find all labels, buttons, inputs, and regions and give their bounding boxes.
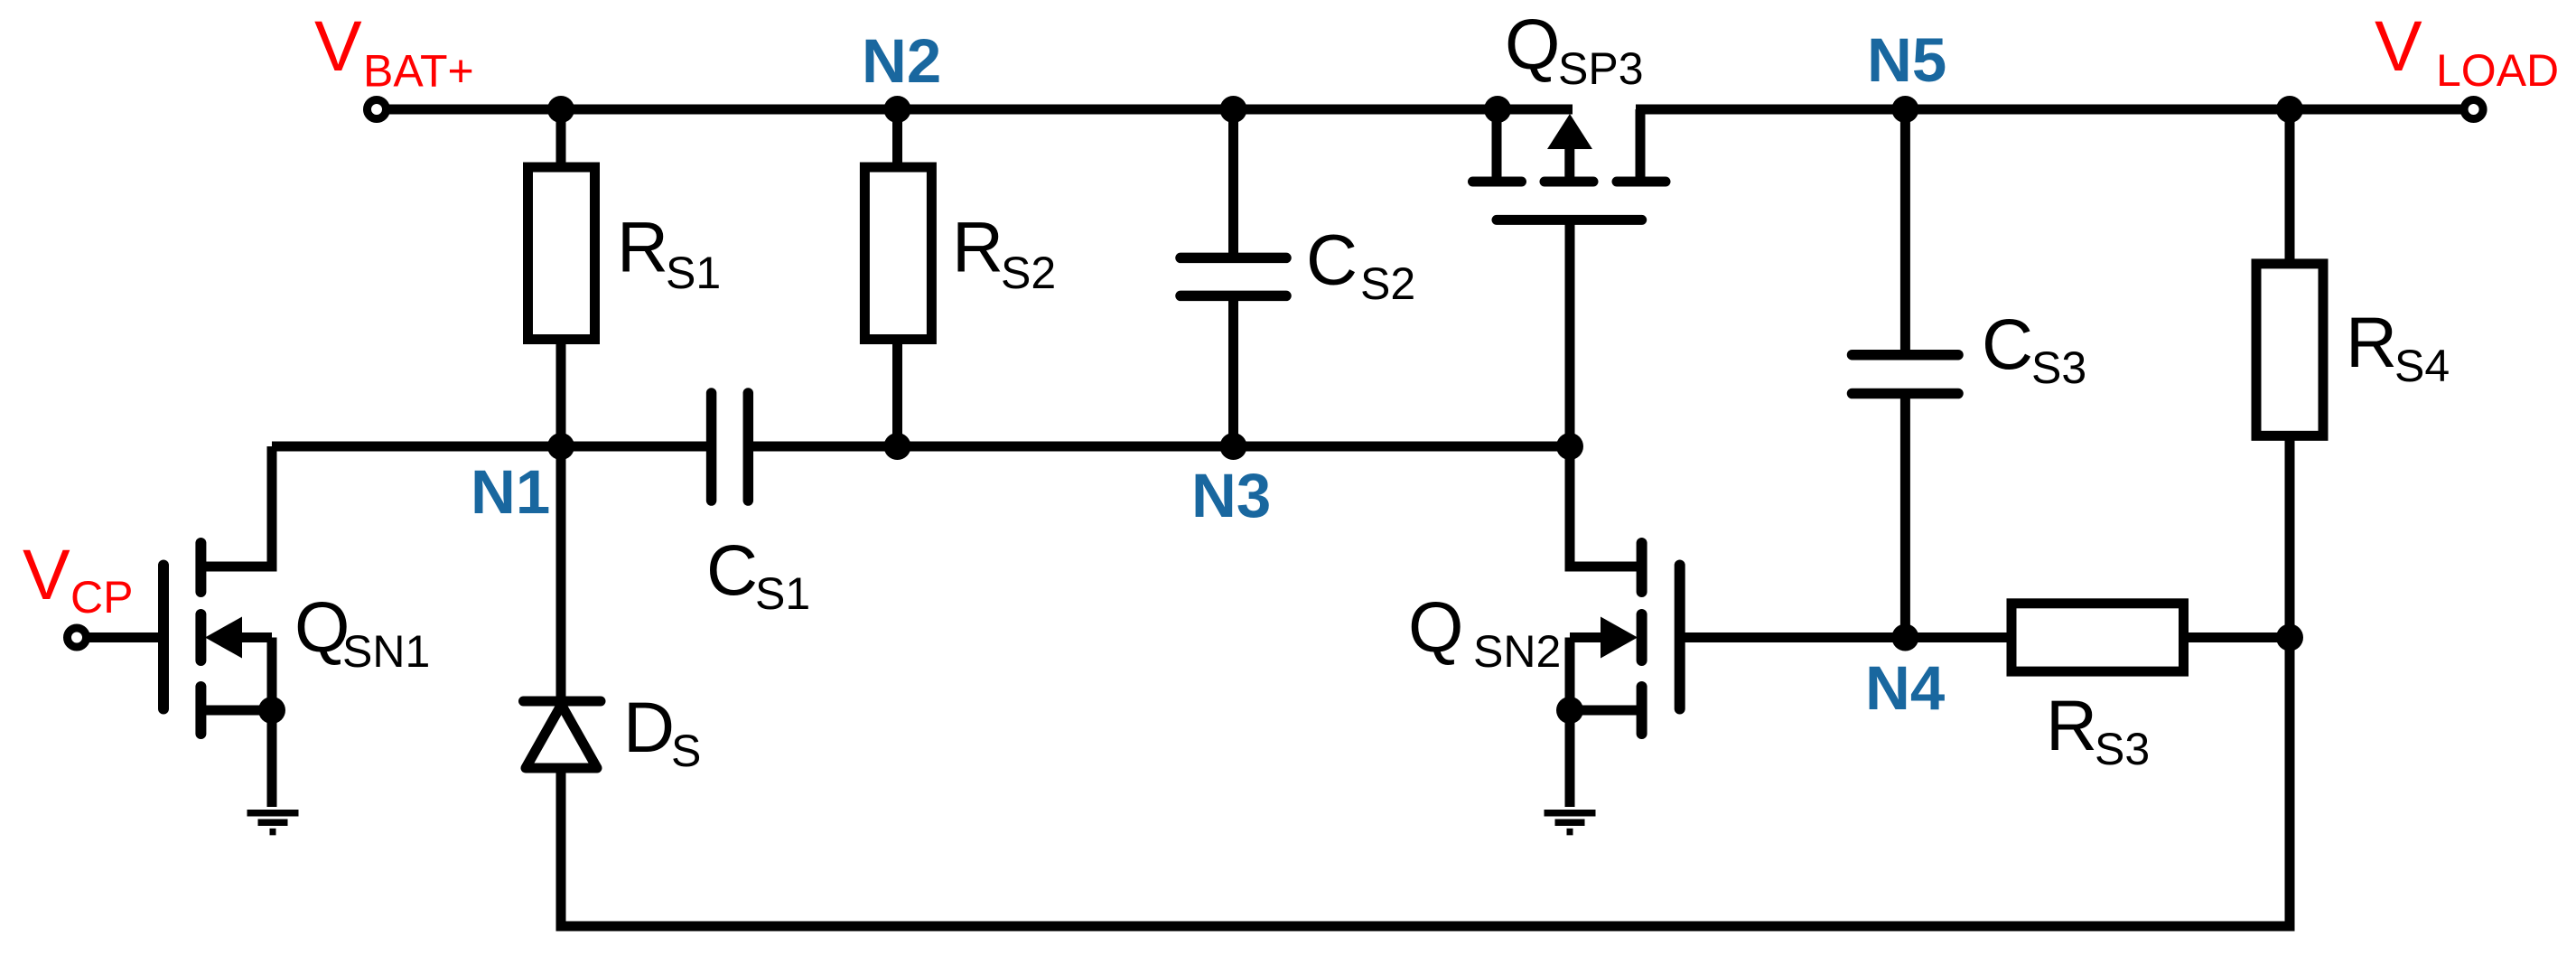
svg-text:V: V	[23, 534, 70, 614]
svg-text:N5: N5	[1867, 25, 1946, 95]
capacitor CS1 plates	[712, 393, 749, 501]
capacitor CS3 plates	[1853, 355, 1959, 394]
wire RS3 right lead	[2189, 632, 2290, 642]
wire CS2 top lead	[1228, 109, 1238, 258]
wire QSP3 gate stem down through N3 row to QSN2 drain	[1570, 224, 1642, 567]
svg-text:SP3: SP3	[1558, 43, 1644, 94]
terminal VLOAD	[2464, 100, 2483, 119]
resistor RS4	[2256, 264, 2323, 436]
svg-text:V: V	[314, 5, 362, 86]
svg-text:R: R	[2346, 302, 2397, 382]
resistor RS2	[864, 167, 931, 340]
resistor RS1	[528, 167, 595, 340]
wire N4 row gate to RS3	[1680, 632, 2007, 642]
svg-text:S: S	[671, 726, 701, 776]
ground under QSN1	[247, 813, 299, 832]
label RS1	[617, 207, 721, 299]
svg-text:BAT+: BAT+	[363, 46, 474, 97]
wire bottom return rail DS to RS4	[561, 436, 2290, 926]
wire QSN2 bulk lead	[1570, 632, 1605, 642]
wire RS1 bottom lead	[556, 339, 566, 446]
junction node N3 dot	[1220, 433, 1247, 460]
wire QSN1 source bar	[201, 706, 272, 716]
svg-text:S3: S3	[2031, 342, 2086, 393]
wire RS1 top lead	[556, 109, 566, 168]
label VCP	[23, 534, 133, 623]
svg-text:S3: S3	[2095, 724, 2150, 774]
junction node N5 dot	[1891, 96, 1918, 123]
svg-text:Q: Q	[1505, 4, 1560, 84]
svg-text:S4: S4	[2394, 341, 2450, 391]
wire QSN1 source to ground	[267, 638, 277, 808]
transistor QSP3 bulk arrowhead	[1547, 114, 1592, 149]
svg-text:CP: CP	[70, 572, 133, 623]
svg-text:C: C	[706, 529, 758, 610]
svg-text:C: C	[1306, 220, 1358, 300]
junction node dot on rail at RS1	[547, 96, 574, 123]
label VLOAD	[2375, 5, 2559, 96]
wire DS top lead from N1	[556, 446, 566, 701]
wire RS2 top lead	[892, 109, 902, 168]
label QSN1	[294, 586, 430, 677]
wire QSN2 source bar	[1570, 706, 1642, 716]
label CS1	[706, 529, 810, 619]
label CS2	[1306, 220, 1415, 310]
wire RS2 bottom lead	[892, 339, 902, 446]
svg-text:Q: Q	[1408, 586, 1463, 667]
svg-text:N1: N1	[471, 457, 550, 527]
junction node dot at QSP3 source	[1484, 96, 1511, 123]
transistor QSN2 bulk arrowhead	[1601, 617, 1638, 659]
diode DS	[524, 701, 602, 768]
svg-text:V: V	[2375, 5, 2422, 86]
svg-text:N3: N3	[1191, 461, 1271, 530]
wire top rail right segment QSP3 drain to VLOAD	[1636, 105, 2465, 115]
junction node N4 dot	[1891, 624, 1918, 651]
junction node dot at RS2 bottom	[884, 433, 911, 460]
wire N5 lead to CS3	[1900, 109, 1910, 355]
wire QSP3 drain lead	[1636, 109, 1646, 177]
junction dot QSN1 source-bulk	[258, 697, 285, 724]
junction node dot on rail at CS2	[1220, 96, 1247, 123]
terminal VBAT+	[368, 100, 387, 119]
wire mid rail N1 row left segment	[272, 442, 706, 452]
svg-text:R: R	[617, 207, 668, 287]
svg-text:N4: N4	[1865, 653, 1945, 723]
transistor QSP3 (PMOS pass transistor)	[1473, 182, 1666, 220]
label VBAT+	[314, 5, 474, 97]
transistor QSN1 (NMOS, gate left)	[163, 543, 201, 734]
wire RS4 top lead	[2285, 109, 2295, 264]
wire mid rail N1 row right segment	[753, 442, 1570, 452]
svg-text:C: C	[1982, 304, 2033, 384]
terminal VCP	[68, 628, 87, 647]
svg-text:R: R	[2046, 685, 2097, 765]
transistor QSN2 (NMOS, gate right, mirrored)	[1642, 543, 1680, 734]
junction node dot on rail at RS4	[2276, 96, 2303, 123]
svg-text:R: R	[952, 207, 1003, 287]
junction node N2 dot	[884, 96, 911, 123]
wire top rail left segment VBAT+ to QSP3	[386, 105, 1573, 115]
svg-text:D: D	[623, 687, 675, 767]
wire QSN2 source to ground	[1565, 638, 1575, 808]
label CS3	[1982, 304, 2086, 393]
wire CS3 bottom lead to N4	[1900, 394, 1910, 639]
label DS	[623, 687, 701, 776]
transistor QSN1 bulk arrowhead	[205, 617, 242, 659]
label QSN2	[1408, 586, 1561, 677]
svg-text:S1: S1	[755, 568, 810, 619]
svg-text:SN2: SN2	[1473, 626, 1561, 677]
capacitor CS2 plates	[1181, 258, 1286, 295]
resistor RS3	[2011, 604, 2184, 671]
svg-text:N2: N2	[862, 26, 941, 96]
label RS2	[952, 207, 1056, 299]
svg-text:SN1: SN1	[342, 626, 430, 677]
wire QSN1 drain path to N1 row	[201, 446, 272, 567]
junction dot QSN2 source-bulk	[1556, 697, 1583, 724]
svg-text:S2: S2	[1001, 248, 1056, 298]
svg-text:S2: S2	[1360, 258, 1415, 309]
wire QSP3 source lead	[1492, 109, 1502, 177]
junction node dot at RS3-RS4	[2276, 624, 2303, 651]
wire QSP3 bulk arrow stem	[1564, 147, 1574, 182]
label QSP3	[1505, 4, 1644, 94]
svg-text:S1: S1	[666, 248, 721, 298]
wire QSN1 gate lead from VCP	[87, 632, 158, 642]
wire CS2 bottom lead	[1228, 295, 1238, 446]
wire QSN1 bulk lead	[237, 632, 272, 642]
label RS3	[2046, 685, 2150, 774]
svg-text:LOAD: LOAD	[2436, 45, 2559, 96]
junction node dot at QSP3 gate / N3 row	[1556, 433, 1583, 460]
label RS4	[2346, 302, 2450, 391]
junction node N1 dot	[547, 433, 574, 460]
ground under QSN2	[1545, 813, 1596, 832]
